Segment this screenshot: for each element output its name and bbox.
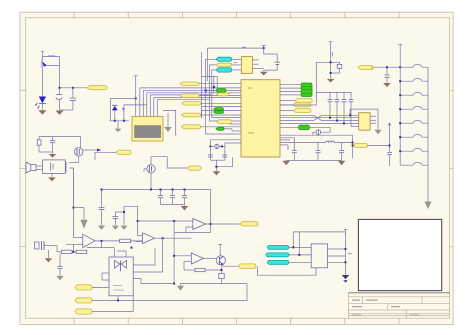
- ground GND3: [260, 72, 268, 76]
- wire Q4 gate out: [83, 149, 102, 152]
- diode D3: [337, 64, 342, 68]
- bus vertical 2: [210, 65, 242, 121]
- diode D2: [110, 98, 117, 120]
- wire LCD fan 1: [140, 87, 241, 89]
- inductor L1: [280, 141, 353, 142]
- LED D1: [35, 97, 46, 109]
- title block table: [348, 292, 449, 294]
- power stub VCC1: [41, 51, 44, 60]
- ground arrow GA2: [80, 208, 87, 229]
- junction J1: [59, 87, 74, 89]
- port yellow AOUT1: [240, 222, 258, 226]
- wire OP2 row: [289, 254, 311, 256]
- wire Q3 source: [150, 173, 152, 190]
- port yellow Y3p: [295, 99, 313, 103]
- capacitor C20: [182, 190, 187, 205]
- port VIN: [87, 86, 107, 90]
- capacitor C13: [387, 152, 392, 166]
- ground GND6: [282, 161, 294, 166]
- power stub VCC5: [218, 244, 222, 256]
- junction J7: [345, 248, 347, 263]
- port PA4: [181, 125, 200, 129]
- wire LCD fan 4: [150, 94, 212, 96]
- port yellow VOL: [116, 150, 131, 154]
- speaker LS1: [26, 162, 36, 173]
- ground GND8: [383, 83, 391, 87]
- junction D3: [330, 61, 332, 74]
- ground GND5: [327, 79, 335, 83]
- port yellow Y1: [217, 93, 230, 96]
- port green G3: [216, 127, 224, 130]
- capacitor C9: [349, 92, 354, 107]
- wire Q1 collector loop: [43, 57, 60, 66]
- port PA1: [180, 94, 199, 98]
- switch SW5: [400, 120, 428, 123]
- junction J6: [292, 246, 300, 256]
- optocoupler U6: [311, 244, 327, 268]
- ground arrow GA3: [120, 206, 127, 230]
- port PA0: [180, 82, 199, 86]
- rail main: [102, 189, 211, 191]
- junction J15: [389, 145, 391, 147]
- ground GND2: [56, 111, 64, 115]
- junction rail main dots: [150, 189, 186, 191]
- port green G2b: [214, 111, 224, 114]
- wire speaker to relay: [36, 166, 43, 170]
- LCD module U2: [132, 117, 163, 142]
- op-amp A2: [143, 233, 155, 244]
- net label SCL: [242, 47, 246, 48]
- wire U3 right pins: [252, 60, 263, 69]
- capacitor C2: [70, 88, 76, 110]
- switch SW7: [400, 148, 428, 151]
- wire Q2 emitter to port: [223, 265, 238, 267]
- wire Q1 base down: [42, 68, 44, 97]
- wire node A: [60, 65, 88, 87]
- junction J10: [173, 220, 211, 225]
- wire U6 bottom loop: [258, 267, 317, 276]
- MCU U1: [241, 80, 280, 157]
- wire U1 pin row Y3p: [280, 100, 295, 102]
- junction J3: [263, 47, 265, 49]
- pin number U3: [234, 62, 237, 63]
- wire R1 R2 link: [66, 244, 83, 252]
- wire G8 to oscillator: [280, 127, 330, 135]
- wire U4 left pin2 stub: [102, 273, 109, 280]
- ground GND4: [213, 171, 221, 175]
- wire U1 right to riser: [280, 62, 316, 105]
- ground arrow SW bus: [425, 202, 432, 210]
- wire LCD fan 6: [157, 98, 209, 100]
- capacitor C22: [50, 137, 55, 153]
- relay K1: [43, 160, 67, 174]
- resistor R4: [37, 137, 41, 153]
- capacitor C10: [292, 151, 297, 161]
- power stub VCC4: [398, 45, 402, 166]
- wire LCD right drop: [163, 110, 176, 135]
- wire LCD fan 5: [154, 96, 241, 98]
- wire PB2 run: [92, 284, 247, 301]
- capacitor C23: [98, 190, 105, 230]
- wire switch right bus: [427, 67, 429, 201]
- wire snubber top rail: [39, 136, 81, 138]
- port green G8: [299, 125, 310, 129]
- wire PB3 run: [92, 296, 133, 312]
- ground GND11: [181, 206, 189, 210]
- wire A2 output: [155, 237, 192, 239]
- wire Q4 source down: [69, 156, 78, 163]
- wire relay to audio rail: [69, 168, 73, 212]
- wire U6 right pins: [328, 249, 346, 262]
- capacitor C12: [339, 143, 344, 161]
- wire D2 top rail: [110, 98, 147, 105]
- port yellow PB1: [75, 285, 92, 290]
- rail upper link: [73, 168, 84, 238]
- junction J12: [117, 247, 175, 302]
- port cyan TX: [216, 57, 232, 61]
- resistor R2: [76, 250, 87, 253]
- power stub VCC2: [262, 46, 266, 49]
- junction D2 rail: [114, 120, 125, 122]
- junction J13: [101, 189, 153, 191]
- IC U3: [241, 57, 252, 74]
- capacitor C11: [316, 143, 321, 161]
- switch SW2: [400, 78, 428, 81]
- port yellow Y2: [217, 120, 232, 124]
- power stub up P6: [388, 122, 391, 152]
- power stub VCC3: [329, 42, 333, 79]
- wire cap bank to U5 feed: [330, 107, 351, 126]
- port cyan RX: [216, 68, 232, 72]
- port green G2a: [214, 108, 224, 111]
- wire A1 plus input: [78, 243, 83, 245]
- ground GND1: [38, 104, 46, 115]
- sheet image box: [358, 219, 441, 290]
- wire OP3 row: [289, 261, 311, 263]
- port cyan OP2: [266, 253, 289, 257]
- port mid yellow: [216, 63, 232, 66]
- junction crystal: [209, 145, 223, 147]
- ground GND13: [48, 173, 56, 181]
- port yellow PB3: [75, 309, 92, 314]
- junction J5: [386, 66, 401, 68]
- wire U1 pin row Y4p: [280, 110, 293, 112]
- power stub LCD: [134, 76, 138, 117]
- wire bottom rail A4: [180, 284, 247, 286]
- wire U1 right pins to green stack: [280, 85, 301, 95]
- port yellow KEY: [358, 66, 375, 70]
- capacitor C15: [57, 254, 62, 276]
- switch SW4: [400, 107, 428, 110]
- LCD pins top: [140, 88, 158, 117]
- capacitor C6: [328, 92, 333, 107]
- junction J4: [205, 86, 216, 92]
- capacitor C4: [208, 155, 213, 157]
- bus vertical 5: [206, 76, 242, 93]
- wire PA4 to U1: [201, 126, 241, 128]
- wire A3 fb: [174, 190, 210, 233]
- wire A1 fb drop: [87, 241, 115, 248]
- capacitor C18: [158, 190, 163, 205]
- oscillator X2: [316, 130, 321, 135]
- wire LCD fan 3: [147, 92, 241, 94]
- wire OP1 row: [289, 246, 311, 248]
- wire cross X1: [314, 115, 322, 120]
- wire snubber bottom: [39, 152, 53, 154]
- op-amp A4: [191, 253, 203, 264]
- vertical link left: [173, 221, 175, 284]
- title block text marks: [352, 300, 419, 316]
- resistor R20: [346, 232, 352, 275]
- capacitor C5: [222, 155, 227, 157]
- port green G1: [216, 89, 226, 93]
- ground arrow LCD: [164, 113, 172, 132]
- wire A4 fb loop: [184, 266, 222, 273]
- wire C1 C2 common: [60, 109, 73, 111]
- ground GND10: [45, 250, 53, 262]
- port yellow BL: [187, 166, 201, 170]
- resistor R1: [61, 250, 72, 253]
- capacitor C16: [112, 212, 124, 230]
- port cyan OP3: [268, 260, 290, 264]
- wire U4 right pins: [133, 238, 174, 283]
- crystal Y3: [215, 144, 219, 149]
- wire cap bank rail: [316, 92, 351, 96]
- wire U1 left pins misc: [202, 91, 242, 135]
- capacitor C1 electrolytic: [56, 88, 63, 110]
- switch SW8: [400, 162, 428, 165]
- wire PWR vertical: [352, 135, 354, 158]
- port PA2: [182, 102, 201, 106]
- port cyan OP1: [268, 245, 290, 249]
- port yellow AOUT2: [238, 264, 256, 268]
- wire Q3 drain to port: [151, 157, 187, 168]
- wire PA0 to U1: [199, 83, 241, 85]
- junction J2: [135, 97, 137, 99]
- wire A4 plus: [174, 256, 191, 270]
- butterfly symbol U4: [115, 261, 127, 272]
- ground arrow D2: [115, 121, 122, 132]
- IC U5: [359, 113, 370, 130]
- junction crystal gnd: [215, 166, 217, 168]
- wire RC to A3 node: [124, 206, 143, 235]
- microphone MK1: [35, 241, 58, 250]
- capacitor C14: [385, 67, 390, 83]
- switch SW6: [400, 135, 428, 138]
- port yellow PWR: [353, 143, 368, 147]
- wire U4 top pins: [114, 248, 126, 257]
- mosfet Q4: [75, 137, 83, 157]
- digital pot U4: [109, 257, 133, 296]
- wire port to switch bus: [367, 145, 389, 147]
- junction J11: [173, 255, 222, 271]
- U4 inner text dashes: [113, 286, 124, 291]
- wire VOL left: [95, 152, 116, 160]
- transistor Q2: [216, 256, 225, 266]
- net label VCC: [48, 55, 55, 56]
- junction J14: [352, 142, 354, 147]
- wire PA1 to U1: [199, 95, 241, 97]
- ground GND12: [49, 154, 57, 158]
- wire A4 out: [204, 257, 217, 259]
- ground GND9: [342, 275, 350, 283]
- wire LCD fan 2: [143, 89, 214, 91]
- port green stack G4-G7: [301, 83, 312, 97]
- junction J8: [72, 240, 102, 253]
- wire U5 left pins: [280, 115, 359, 126]
- wire A3 out to port: [206, 223, 241, 225]
- wire D2 bottom rail: [110, 120, 129, 122]
- capacitor C8: [342, 92, 347, 107]
- capacitor C7: [335, 92, 340, 107]
- junction J9: [162, 237, 164, 239]
- bus vertical 1: [206, 59, 217, 90]
- wire R3 to A2: [131, 240, 143, 243]
- wire opto top risers: [293, 232, 345, 255]
- capacitor C3: [264, 48, 281, 71]
- wire ground rail mid: [294, 160, 341, 162]
- port yellow Y4p: [293, 109, 311, 113]
- op-amp A1: [73, 234, 95, 247]
- wire crystal ground rail: [210, 157, 232, 171]
- op-amp A3: [193, 219, 206, 230]
- wire PA3 to U1: [201, 114, 241, 116]
- ground GND7: [338, 161, 346, 165]
- ground arrow GA4: [177, 286, 184, 291]
- wire KEY row: [375, 66, 401, 68]
- capacitor C19: [170, 190, 175, 205]
- wire caps common: [161, 205, 185, 206]
- switch SW1: [400, 65, 428, 68]
- bus vertical 3: [212, 70, 241, 118]
- net label D3: [332, 52, 333, 57]
- capacitor C21: [219, 273, 224, 283]
- wire A1 output: [95, 240, 143, 242]
- switch SW3: [400, 93, 428, 96]
- ground arrow GA1: [56, 276, 64, 280]
- ground arrow U5: [374, 130, 381, 135]
- bus vertical 4: [202, 52, 218, 118]
- wire U5 right pins: [370, 116, 376, 123]
- wire cyan to U3: [232, 59, 242, 70]
- wire top rail: [208, 48, 264, 81]
- wire long row: [280, 134, 353, 136]
- port yellow PB2: [75, 298, 92, 303]
- wire crystal row: [210, 145, 225, 147]
- junction dots left bus: [399, 80, 401, 152]
- resistor R3: [120, 239, 131, 242]
- transistor Q1: [42, 60, 47, 68]
- diode D2b glyph: [122, 105, 125, 121]
- junction rail dots: [72, 207, 138, 223]
- power stub opto: [344, 229, 348, 232]
- port PA3: [181, 113, 200, 117]
- diode D3 loop: [316, 62, 339, 73]
- mosfet Q3: [144, 165, 155, 173]
- wire A3 inputs: [138, 221, 193, 233]
- wire PA2 to U1: [201, 102, 241, 104]
- wire U1 pin row Y3q: [280, 104, 293, 106]
- port yellow Y3q: [293, 103, 311, 107]
- wire crystal to U1: [210, 140, 241, 160]
- wire U4 left pin1: [92, 286, 109, 288]
- junction U5 feeds: [329, 114, 351, 124]
- wire U5 top loop: [350, 109, 378, 129]
- wire cap feed row: [280, 138, 294, 151]
- wire mic node: [57, 246, 61, 252]
